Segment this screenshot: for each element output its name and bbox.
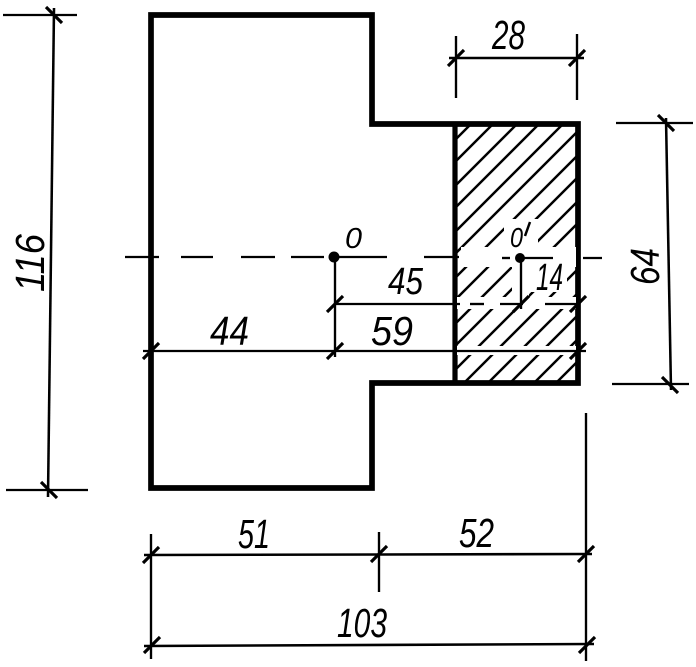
dimension 64 extension bottom bbox=[612, 383, 689, 385]
outline bbox=[151, 15, 578, 488]
dimension 44 tick left bbox=[143, 343, 159, 359]
dimension 45-14 line bbox=[335, 303, 577, 305]
dimension 116 line bbox=[48, 8, 54, 497]
dimension 28 line bbox=[449, 57, 584, 60]
dimension 28 tick left bbox=[448, 50, 464, 66]
dimension 103 tick right bbox=[579, 637, 595, 653]
bottom extension right bbox=[585, 413, 587, 661]
hatching bbox=[212, 124, 696, 383]
dimension 28 tick right bbox=[569, 50, 585, 66]
dimension 52 tick right bbox=[578, 546, 594, 562]
dimension 51-52 tick middle bbox=[371, 546, 387, 562]
dimension 45 tick left bbox=[327, 296, 343, 312]
drop line from O' bbox=[520, 258, 522, 309]
svg-text:0: 0 bbox=[510, 222, 523, 253]
dimension 116 extension bottom bbox=[6, 489, 88, 491]
dimension 44-59 line bbox=[143, 350, 586, 352]
svg-text:45: 45 bbox=[388, 261, 424, 303]
svg-text:14: 14 bbox=[536, 257, 563, 299]
dimension 116 extension top bbox=[3, 14, 77, 16]
svg-text:116: 116 bbox=[7, 234, 53, 292]
point O bbox=[329, 252, 340, 263]
dimension 51-52 line bbox=[144, 554, 592, 555]
center line bbox=[125, 257, 602, 258]
svg-text:52: 52 bbox=[459, 510, 494, 556]
drop line from O bbox=[334, 258, 336, 357]
svg-text:28: 28 bbox=[491, 12, 525, 58]
svg-text:51: 51 bbox=[238, 511, 270, 557]
svg-text:44: 44 bbox=[210, 308, 249, 354]
dimension 45 tick right bbox=[513, 296, 529, 312]
dimension 28 extension right bbox=[576, 34, 578, 100]
flange divider bbox=[452, 124, 457, 383]
dimension 14 tick right bbox=[570, 296, 586, 312]
dimension 44 tick right bbox=[327, 343, 343, 359]
dimension 28 extension left bbox=[455, 36, 457, 98]
svg-text:59: 59 bbox=[371, 308, 413, 354]
dimension 64 tick bottom bbox=[662, 377, 678, 393]
dimension 64 line bbox=[666, 118, 671, 390]
dimension 103 tick left bbox=[144, 637, 160, 653]
point O' bbox=[515, 253, 525, 263]
bottom extension left bbox=[150, 534, 152, 659]
dimension 51 tick left bbox=[143, 547, 159, 563]
dimension 64 tick top bbox=[658, 115, 674, 131]
svg-text:64: 64 bbox=[622, 248, 668, 285]
dimension 59 tick right bbox=[570, 343, 586, 359]
svg-text:103: 103 bbox=[337, 600, 387, 646]
bottom extension middle bbox=[378, 532, 380, 592]
dimension 64 extension top bbox=[616, 122, 693, 124]
dimension 103 line bbox=[144, 644, 594, 646]
dimension 116 tick top bbox=[46, 7, 62, 23]
dimension 116 tick bottom bbox=[41, 482, 57, 498]
label O' prime bbox=[525, 222, 530, 236]
svg-text:0: 0 bbox=[345, 223, 362, 255]
hatch halos bbox=[457, 219, 576, 355]
